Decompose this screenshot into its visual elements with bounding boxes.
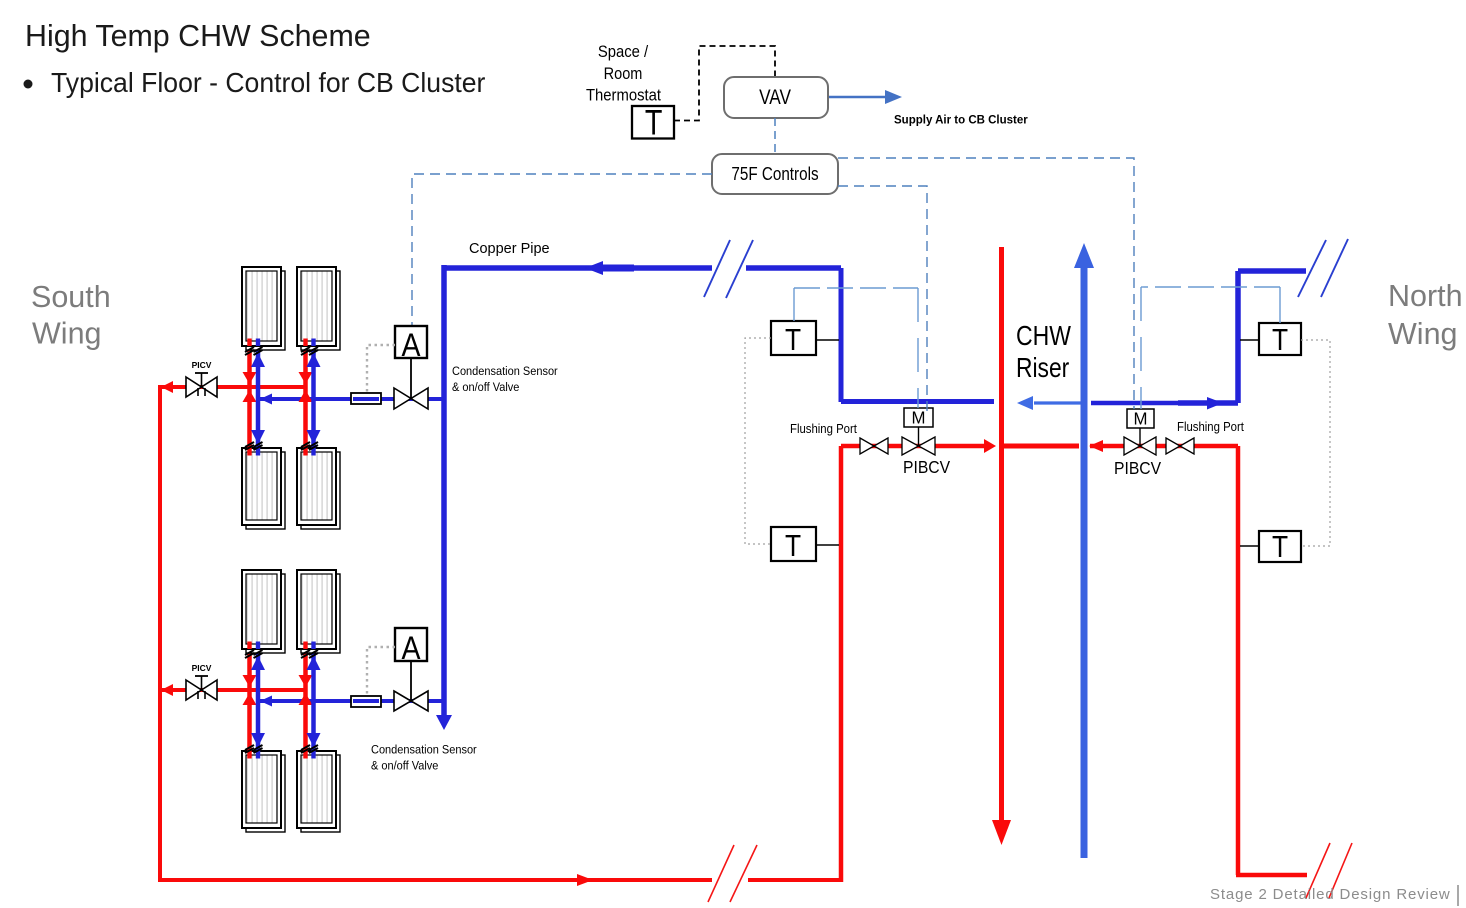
red return from north into risers with arrow	[1090, 444, 1238, 449]
arrow on blue supply pointing left	[585, 261, 603, 275]
svg-text:Flushing Port: Flushing Port	[1177, 419, 1245, 434]
label condensation sensor upper	[452, 366, 558, 395]
svg-text:& on/off Valve: & on/off Valve	[452, 382, 519, 395]
arrow red into riser (south)	[984, 439, 996, 453]
arrow blue north branch pointing right	[1207, 397, 1223, 410]
actuator A box lower	[395, 628, 427, 666]
T sensor box north lower	[1240, 530, 1301, 564]
VAV box	[724, 77, 828, 118]
svg-text:Room: Room	[604, 65, 643, 83]
pipe break symbol (blue, north)	[1298, 239, 1348, 297]
svg-text:M: M	[1134, 408, 1148, 428]
dashed wire 75F Controls to M valve (north)	[838, 158, 1134, 409]
PICV valve upper	[186, 360, 217, 397]
CHW riser red (supply down)	[999, 247, 1004, 824]
red return branch (lower cluster)	[159, 688, 307, 692]
PICV valve lower	[186, 663, 217, 700]
svg-text:T: T	[1272, 323, 1288, 357]
svg-text:PIBCV: PIBCV	[903, 457, 950, 477]
PIBCV valve (north)	[1124, 437, 1156, 455]
red cross segment riser to blue riser	[1001, 444, 1079, 449]
label CHW Riser	[1016, 321, 1071, 383]
svg-text:T: T	[645, 103, 663, 142]
arrow blue supply bottom	[436, 715, 452, 730]
red return north vertical	[1236, 446, 1241, 875]
dashed wire VAV to 75F Controls	[774, 118, 776, 154]
svg-text:CHW: CHW	[1016, 321, 1071, 351]
red arrows into return (beam1 lower)	[243, 675, 257, 687]
on/off valve upper with actuator stem	[394, 358, 428, 409]
svg-text:Typical Floor - Control for CB: Typical Floor - Control for CB Cluster	[51, 66, 485, 98]
blue arrows to beams (beam2 lower)	[307, 656, 321, 670]
red pipe column beam2 upper	[303, 339, 308, 455]
label Space / Room Thermostat	[586, 43, 662, 104]
chilled beam 2 (upper-right of cluster1)	[297, 267, 340, 350]
T sensor box south lower	[771, 527, 839, 564]
pipe stubs into beams	[247, 339, 315, 759]
red pipe column beam1 lower	[247, 642, 252, 758]
thermostat T box (space/room)	[632, 103, 674, 142]
blue supply branch north	[1091, 271, 1306, 403]
chilled beam 4 (lower-right of cluster1)	[297, 448, 340, 529]
dashed wire 75F Controls to M valve (south)	[838, 186, 927, 412]
blue arrows to beams (beam1 upper)	[251, 353, 265, 367]
svg-text:A: A	[402, 329, 422, 364]
blue arrows to beams (beam2 upper)	[307, 353, 321, 367]
svg-text:Riser: Riser	[1016, 353, 1069, 383]
blue pipe column beam1 upper	[256, 341, 261, 452]
red arrows into return (beam2 lower)	[299, 675, 313, 687]
red arrows into return (beam1 upper)	[243, 372, 257, 384]
arrow red riser down	[992, 820, 1011, 845]
svg-text:South: South	[31, 280, 111, 314]
flexible connectors beams (lower cluster top beams)	[245, 650, 318, 658]
supply air arrow from VAV	[829, 90, 902, 104]
svg-text:T: T	[1272, 530, 1288, 564]
dotted wire linking north T sensors	[1301, 340, 1330, 546]
svg-text:Space /: Space /	[598, 43, 649, 61]
blue pipe column beam2 upper	[311, 341, 316, 452]
arrow red return left (lower)	[161, 684, 173, 696]
chilled beam 7 (cluster2 lower-left)	[242, 751, 285, 832]
blue supply pipe top horizontal	[444, 265, 841, 271]
blue branch pipe (upper cluster)	[258, 397, 444, 401]
svg-text:T: T	[785, 323, 801, 357]
svg-text:PICV: PICV	[192, 360, 212, 370]
dotted wire A to sensor (upper)	[367, 345, 395, 393]
condensation sensor lower	[351, 696, 381, 707]
T sensor box north upper	[1240, 323, 1301, 358]
flexible connectors beams (lower cluster bottom beams)	[245, 745, 318, 753]
M actuator box (north)	[1127, 408, 1154, 446]
blue branch pipe (lower cluster)	[258, 699, 444, 703]
arrow red return left (upper)	[161, 381, 173, 393]
red return vertical to PIBCV	[839, 446, 844, 882]
svg-text:Wing: Wing	[1388, 317, 1458, 351]
dashed wire 75F Controls to actuator A (south upper)	[412, 174, 712, 326]
flushing port valve (south)	[860, 438, 888, 454]
svg-text:High Temp CHW Scheme: High Temp CHW Scheme	[25, 19, 371, 53]
blue pipe from CHW riser to corner	[841, 268, 994, 402]
light blue branch arrow from blue riser (to south)	[1017, 396, 1081, 410]
svg-text:PICV: PICV	[192, 663, 212, 673]
chilled beam 8 (cluster2 lower-right)	[297, 751, 340, 832]
arrow blue branch left (upper)	[260, 394, 272, 405]
red return bottom horizontal	[158, 878, 841, 882]
chilled beam 6 (cluster2 upper-right)	[297, 570, 340, 653]
svg-text:T: T	[785, 529, 801, 563]
dashed wire T sensor loop to M (north)	[1141, 287, 1280, 409]
flexible connectors beams (upper cluster top beams)	[245, 347, 318, 355]
red arrows into return (beam2 upper)	[299, 372, 313, 384]
red return north bottom horizontal	[1236, 873, 1307, 878]
dotted wire A to sensor (lower)	[367, 647, 395, 696]
on/off valve lower with actuator stem	[394, 661, 428, 711]
svg-text:North: North	[1388, 279, 1463, 313]
red pipe column beam1 upper	[247, 339, 252, 455]
red return run to CHW riser (south)	[841, 444, 985, 449]
chilled beam 3 (lower-left of cluster1)	[242, 448, 285, 529]
T sensor box south upper	[771, 321, 839, 358]
svg-text:Stage 2 Detailed Design Review: Stage 2 Detailed Design Review	[1210, 886, 1451, 903]
blue pipe column beam2 lower	[311, 644, 316, 755]
svg-text:Wing: Wing	[32, 317, 102, 351]
svg-text:Copper Pipe: Copper Pipe	[469, 241, 550, 257]
svg-text:Condensation Sensor: Condensation Sensor	[452, 366, 558, 379]
svg-text:Flushing Port: Flushing Port	[790, 421, 858, 436]
pipe break symbol (blue, top)	[704, 240, 753, 298]
arrow blue branch left (lower)	[260, 696, 272, 707]
PIBCV valve (south)	[902, 427, 935, 455]
dotted wire linking south T sensors	[745, 338, 771, 544]
svg-text:A: A	[402, 632, 422, 667]
svg-text:Condensation Sensor: Condensation Sensor	[371, 744, 477, 757]
red return left vertical	[158, 385, 162, 880]
red return branch (upper cluster)	[159, 385, 307, 389]
label South Wing	[31, 280, 111, 351]
flushing port valve (north)	[1166, 438, 1194, 454]
svg-text:& on/off Valve: & on/off Valve	[371, 760, 438, 773]
label condensation sensor lower	[371, 744, 477, 773]
actuator A box upper	[395, 326, 427, 363]
pipe break symbol (red, bottom right)	[1306, 843, 1352, 898]
red pipe column beam2 lower	[303, 642, 308, 758]
dashed wire T sensor loop to M (south)	[794, 288, 918, 408]
svg-text:M: M	[912, 407, 926, 427]
blue pipe column beam1 lower	[256, 644, 261, 755]
bullet: Typical Floor - Control for CB Cluster	[24, 66, 486, 98]
svg-text:75F Controls: 75F Controls	[731, 164, 818, 185]
CHW riser blue (up)	[1081, 262, 1088, 858]
M actuator box (south)	[904, 407, 933, 427]
svg-text:VAV: VAV	[759, 87, 791, 110]
chilled beam 1 (upper-left)	[242, 267, 285, 350]
pipe break symbol (red, bottom left)	[708, 845, 757, 902]
chilled beam 5 (cluster2 upper-left)	[242, 570, 285, 653]
arrow red return bottom pointing right	[577, 874, 593, 886]
blue arrows to beams (beam1 lower)	[251, 656, 265, 670]
flexible connectors beams (upper cluster bottom beams)	[245, 442, 318, 450]
75F Controls box	[712, 154, 838, 194]
label North Wing	[1388, 279, 1463, 351]
dashed black control wire thermostat to VAV	[674, 46, 775, 121]
blue supply vertical riser down south	[441, 265, 447, 718]
svg-text:Supply Air to CB Cluster: Supply Air to CB Cluster	[894, 115, 1028, 127]
arrow blue riser up	[1074, 243, 1094, 268]
svg-text:PIBCV: PIBCV	[1114, 458, 1161, 478]
condensation sensor upper	[351, 393, 381, 404]
